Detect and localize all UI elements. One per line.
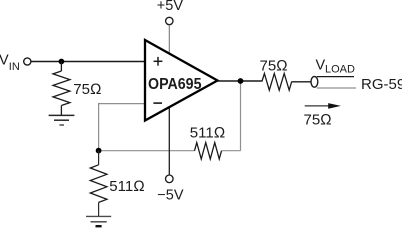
coax cable top line xyxy=(317,76,354,78)
ground GND2 xyxy=(86,216,111,226)
resistor R2 511ohm feedback xyxy=(195,143,222,159)
svg-text:511Ω: 511Ω xyxy=(109,178,144,195)
svg-text:RG-59: RG-59 xyxy=(361,76,402,93)
resistor R1 75ohm input xyxy=(53,71,70,106)
op-amp U1 OPA695 xyxy=(145,40,218,121)
svg-text:OPA695: OPA695 xyxy=(148,76,202,93)
coax cable bottom line xyxy=(317,87,356,89)
svg-text:V: V xyxy=(316,58,326,74)
junction node A xyxy=(59,59,65,65)
svg-text:+5V: +5V xyxy=(157,0,184,14)
resistor R3 511ohm to ground xyxy=(90,165,107,203)
wire node A to R1 xyxy=(60,62,62,72)
svg-text:75Ω: 75Ω xyxy=(260,57,288,74)
+5V terminal xyxy=(166,17,173,24)
svg-text:−5V: −5V xyxy=(157,187,184,203)
-5V terminal xyxy=(166,175,174,183)
wire node B to R3 xyxy=(98,151,100,165)
node VIN label xyxy=(0,53,20,73)
wire -input (inverting) xyxy=(99,104,145,151)
wire -5V stub xyxy=(168,107,170,176)
arrow impedance direction xyxy=(305,103,341,109)
wire feedback vertical xyxy=(240,81,242,151)
svg-text:75Ω: 75Ω xyxy=(73,81,101,98)
coax connector end xyxy=(311,76,318,87)
op-amp - pin mark xyxy=(153,102,162,104)
wire output xyxy=(218,80,262,82)
svg-text:511Ω: 511Ω xyxy=(190,124,225,141)
wire feedback bottom right xyxy=(222,150,241,152)
svg-text:IN: IN xyxy=(9,61,20,73)
label VLOAD xyxy=(316,58,356,76)
input terminal VIN xyxy=(24,58,31,65)
junction node OUT xyxy=(238,78,244,84)
junction node B xyxy=(96,148,102,154)
resistor R4 75ohm output xyxy=(262,74,292,91)
wire +5V stub xyxy=(168,25,170,55)
wire feedback bottom left xyxy=(99,150,195,152)
svg-text:75Ω: 75Ω xyxy=(304,112,332,129)
wire VIN to +input xyxy=(31,61,145,63)
wire R1 to ground xyxy=(60,106,62,116)
svg-text:LOAD: LOAD xyxy=(325,64,355,76)
wire R4 to coax xyxy=(292,81,312,83)
op-amp + pin mark xyxy=(154,57,163,66)
svg-text:V: V xyxy=(0,53,9,69)
ground GND1 xyxy=(49,115,75,125)
wire R3 to ground xyxy=(98,202,100,216)
